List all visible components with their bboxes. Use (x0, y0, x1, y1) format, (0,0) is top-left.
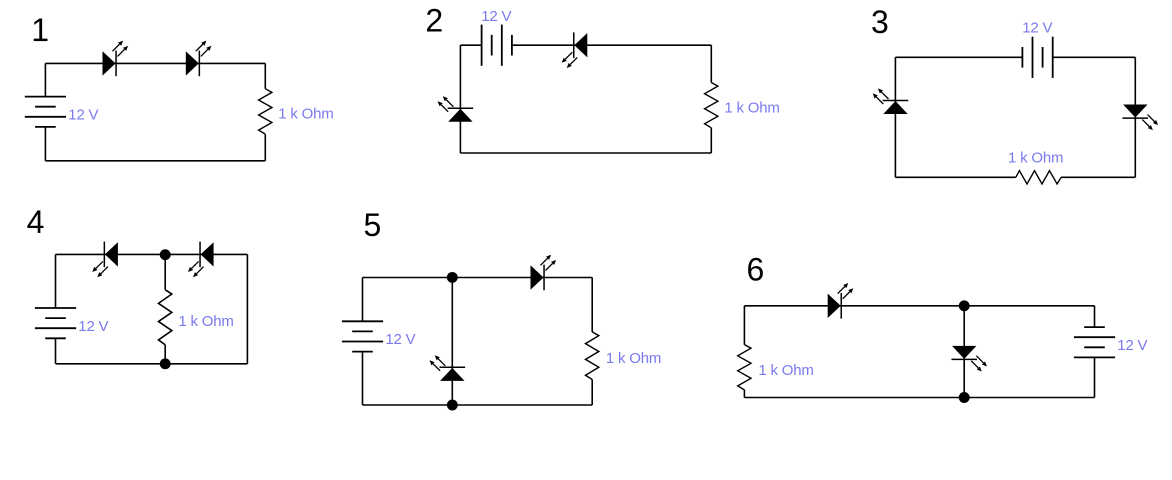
svg-text:12 V: 12 V (385, 331, 415, 348)
svg-text:1 k Ohm: 1 k Ohm (606, 350, 661, 367)
svg-text:2: 2 (425, 3, 443, 39)
svg-text:12 V: 12 V (68, 106, 98, 123)
svg-text:1: 1 (31, 12, 49, 48)
svg-text:4: 4 (27, 204, 45, 240)
svg-text:6: 6 (747, 252, 765, 288)
svg-text:1 k Ohm: 1 k Ohm (758, 362, 813, 379)
svg-text:12 V: 12 V (1022, 20, 1052, 37)
svg-text:3: 3 (871, 4, 889, 40)
svg-text:1 k Ohm: 1 k Ohm (724, 100, 779, 117)
svg-text:1 k Ohm: 1 k Ohm (178, 313, 233, 330)
svg-text:12 V: 12 V (1117, 337, 1147, 354)
svg-text:1 k Ohm: 1 k Ohm (1008, 149, 1063, 166)
svg-text:12 V: 12 V (481, 8, 511, 25)
svg-text:1 k Ohm: 1 k Ohm (278, 106, 333, 123)
svg-text:12 V: 12 V (78, 318, 108, 335)
svg-text:5: 5 (364, 207, 382, 243)
